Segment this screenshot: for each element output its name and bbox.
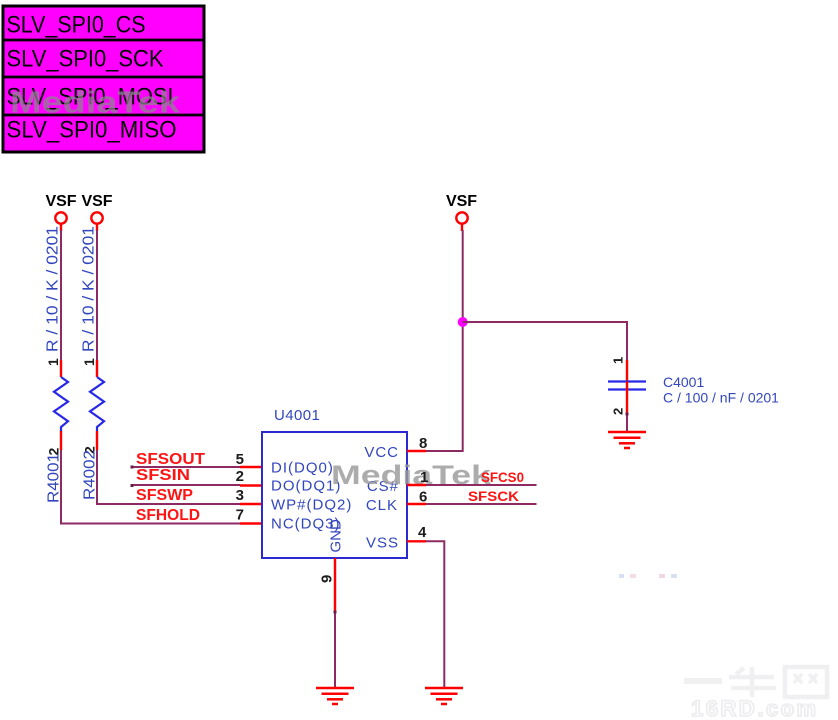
svg-text:U4001: U4001 <box>274 407 320 424</box>
op chip U4001 body <box>262 432 407 558</box>
pin 9 stub of U4001 <box>334 558 336 612</box>
svg-text:VSF: VSF <box>45 193 76 210</box>
resistor R4001 pin 2 stub <box>60 431 62 450</box>
svg-text:R / 10 / K / 0201: R / 10 / K / 0201 <box>45 226 62 352</box>
wire SFSIN <box>132 484 240 486</box>
power symbol VSF (left 1) <box>45 193 76 231</box>
capacitor C4001 plates <box>608 380 646 382</box>
svg-text:SFSOUT: SFSOUT <box>136 451 205 468</box>
resistor R4002 pin 2 stub <box>96 431 98 450</box>
svg-text:SLV_SPI0_SCK: SLV_SPI0_SCK <box>7 46 164 73</box>
svg-text:3: 3 <box>236 487 244 504</box>
svg-text:C4001: C4001 <box>663 374 704 390</box>
svg-text:1: 1 <box>420 469 428 486</box>
svg-text:VSS: VSS <box>366 535 399 552</box>
wire SFSOUT <box>132 466 240 468</box>
wire GND pin to ground <box>334 612 336 687</box>
svg-text:VCC: VCC <box>364 444 399 461</box>
svg-text:C / 100 / nF / 0201: C / 100 / nF / 0201 <box>663 390 779 406</box>
wire R4001 to SFHOLD <box>61 450 240 524</box>
net table SLV_SPI0 <box>3 6 204 152</box>
pin 6 stub of U4001 <box>407 503 426 505</box>
svg-text:WP#(DQ2): WP#(DQ2) <box>271 497 352 514</box>
svg-text:VSF: VSF <box>446 193 477 210</box>
pin 8 stub of U4001 <box>407 450 426 452</box>
ground (below C4001) <box>608 432 646 448</box>
svg-text:SFCS0: SFCS0 <box>481 469 524 485</box>
power symbol VSF (top right) <box>446 193 477 231</box>
wire SFSCK <box>426 503 537 505</box>
svg-text:SLV_SPI0_CS: SLV_SPI0_CS <box>7 12 146 39</box>
resistor R4002 pin 1 stub <box>96 360 98 377</box>
wire VSS to ground <box>426 541 444 687</box>
resistor R4002 zigzag <box>90 377 104 431</box>
pin 2 stub of U4001 <box>240 484 262 486</box>
junction dot VSF node <box>458 317 468 327</box>
svg-text:MediaTek: MediaTek <box>10 85 181 120</box>
svg-text:9: 9 <box>319 575 336 583</box>
pin 5 stub of U4001 <box>240 466 262 468</box>
svg-text:SFSIN: SFSIN <box>136 467 190 484</box>
svg-text:DI(DQ0): DI(DQ0) <box>271 460 334 477</box>
wire C4001 to ground <box>626 414 628 431</box>
resistor R4001 zigzag <box>54 377 68 431</box>
svg-text:SFHOLD: SFHOLD <box>136 507 200 524</box>
wire SFCS0 <box>426 484 537 486</box>
svg-text:6: 6 <box>419 489 427 506</box>
pin 3 stub of U4001 <box>240 503 262 505</box>
svg-text:7: 7 <box>236 507 244 524</box>
svg-text:SLV_SPI0_MISO: SLV_SPI0_MISO <box>7 117 177 144</box>
svg-text:8: 8 <box>419 435 427 452</box>
pin 1 stub of U4001 <box>407 484 426 486</box>
wire VSF2 to R4002 <box>96 230 98 360</box>
svg-text:VSF: VSF <box>81 193 112 210</box>
svg-text:4: 4 <box>418 524 427 541</box>
ground (below pin 9) <box>316 688 354 704</box>
pin 7 stub of U4001 <box>240 522 262 524</box>
wire R4002 to SFSWP <box>97 450 240 504</box>
svg-text:2: 2 <box>236 468 244 485</box>
watermark dots <box>619 574 677 578</box>
wire VSF node to C4001 <box>463 322 627 360</box>
svg-text:16RD.com: 16RD.com <box>691 696 819 720</box>
svg-text:1: 1 <box>611 357 626 364</box>
power symbol VSF (left 2) <box>81 193 112 231</box>
pin 4 stub of U4001 <box>407 540 426 542</box>
svg-text:5: 5 <box>236 451 244 468</box>
ground (below VSS) <box>425 688 463 704</box>
svg-text:R4001: R4001 <box>46 453 63 503</box>
svg-text:R / 10 / K / 0201: R / 10 / K / 0201 <box>81 226 98 352</box>
svg-text:1: 1 <box>45 358 61 366</box>
svg-text:SFSCK: SFSCK <box>468 488 519 504</box>
watermark 一牛网 <box>684 667 827 697</box>
svg-text:2: 2 <box>611 408 626 415</box>
pin 1 stub of C4001 <box>626 360 628 381</box>
wire VCC to VSF <box>426 230 463 451</box>
wire VSF1 to R4001 <box>60 230 62 360</box>
pin 2 stub of C4001 <box>626 390 628 415</box>
resistor R4001 pin 1 stub <box>60 360 62 377</box>
svg-text:SFSWP: SFSWP <box>136 487 193 504</box>
svg-text:R4002: R4002 <box>82 450 99 500</box>
svg-text:GND: GND <box>328 519 345 553</box>
svg-text:CLK: CLK <box>366 497 398 514</box>
svg-text:1: 1 <box>81 358 97 366</box>
